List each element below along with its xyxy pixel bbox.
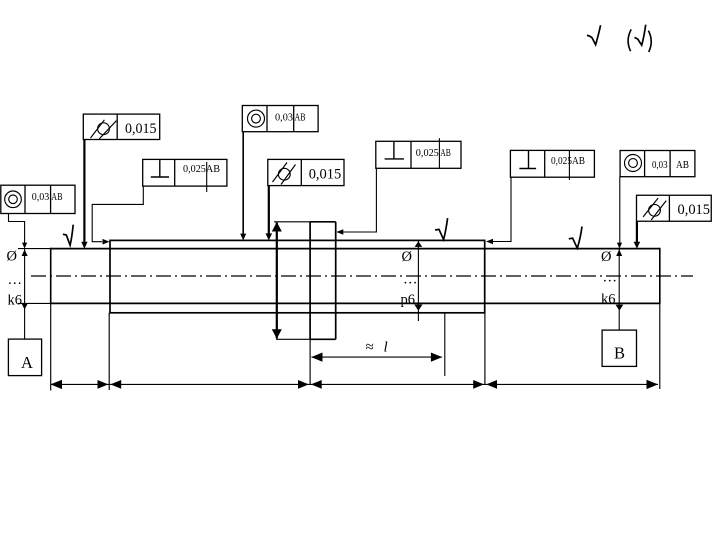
svg-text:p6: p6 bbox=[401, 292, 416, 308]
leader from F3 to middle body bbox=[266, 186, 273, 241]
label Ø ... k6 left bbox=[7, 249, 23, 309]
svg-text:AB: AB bbox=[295, 112, 306, 124]
extension line right end bbox=[659, 304, 661, 389]
frame FD concentricity 0,03 AB right bbox=[620, 151, 695, 177]
shaft left end face bbox=[50, 248, 52, 304]
svg-text:…: … bbox=[8, 272, 23, 288]
collar right edge bbox=[335, 222, 337, 339]
extension line collar left bbox=[309, 339, 311, 384]
frame FA perpendicularity 0,025 AB left bbox=[143, 159, 227, 192]
frame F0 cylindricity 0,015 top-left bbox=[83, 114, 159, 139]
roughness mark on left journal bbox=[63, 225, 73, 246]
extension line right shoulder bbox=[484, 313, 486, 385]
svg-text:Ø: Ø bbox=[402, 249, 412, 265]
label Ø ... k6 right bbox=[601, 249, 617, 308]
frame F3 cylindricity 0,015 middle bbox=[268, 159, 344, 185]
collar diameter dimension double arrow bbox=[272, 222, 282, 339]
frame F1 concentricity 0,03 AB left bbox=[1, 185, 75, 213]
svg-text:A: A bbox=[21, 353, 33, 372]
svg-text:0,03: 0,03 bbox=[275, 112, 293, 124]
label approx l bbox=[366, 340, 388, 356]
leader from F2 to middle body bbox=[240, 132, 246, 241]
svg-text:…: … bbox=[403, 272, 418, 288]
leader from F0 to left journal bbox=[81, 140, 87, 249]
shaft centerline bbox=[31, 275, 693, 277]
svg-text:0,015: 0,015 bbox=[678, 202, 711, 218]
collar left edge bbox=[309, 222, 311, 339]
frame F2 concentricity 0,03 AB middle bbox=[242, 106, 318, 132]
svg-text:0,025: 0,025 bbox=[416, 147, 439, 159]
leader from FE to right journal bbox=[634, 221, 641, 248]
svg-text:0,025AB: 0,025AB bbox=[551, 155, 585, 167]
svg-text:≈: ≈ bbox=[366, 340, 374, 356]
svg-text:AB: AB bbox=[676, 159, 689, 171]
svg-text:AB: AB bbox=[51, 191, 62, 203]
middle body diameter dimension line bbox=[414, 241, 422, 322]
svg-text:0,03: 0,03 bbox=[652, 159, 668, 171]
approx length dimension bbox=[311, 353, 442, 362]
collar bottom edge with extension bbox=[276, 338, 336, 340]
svg-text:0,015: 0,015 bbox=[309, 167, 342, 183]
middle large diameter body bbox=[110, 240, 485, 312]
general roughness mark top right bbox=[587, 25, 651, 52]
approx length extension line bbox=[444, 314, 446, 377]
right journal diameter dimension line with datum B bbox=[616, 249, 624, 331]
frame FC perpendicularity 0,025 AB right bbox=[510, 150, 594, 180]
left journal diameter dimension line with datum A bbox=[22, 249, 28, 340]
frame FE cylindricity 0,015 right bbox=[637, 195, 712, 221]
svg-text:k6: k6 bbox=[601, 292, 616, 308]
datum box B bbox=[602, 330, 636, 366]
label Ø ... p6 middle bbox=[401, 249, 418, 308]
svg-text:AB: AB bbox=[440, 147, 451, 159]
svg-text:Ø: Ø bbox=[7, 249, 17, 265]
svg-text:B: B bbox=[614, 344, 625, 363]
extension line left end bbox=[50, 304, 52, 390]
svg-text:0,025AB: 0,025AB bbox=[183, 163, 220, 175]
roughness mark on middle body bbox=[435, 218, 448, 240]
leader from FA to left shoulder bbox=[92, 186, 143, 244]
leader from FC to right shoulder bbox=[486, 177, 511, 244]
shaft upper generator line bbox=[18, 248, 660, 250]
leader from F4 to collar right face bbox=[336, 168, 376, 235]
svg-text:Ø: Ø bbox=[601, 249, 611, 265]
shaft lower generator line bbox=[18, 302, 660, 304]
collar top edge with extension bbox=[274, 221, 336, 223]
svg-text:…: … bbox=[603, 270, 618, 286]
leader from FD to right journal dimension bbox=[617, 177, 622, 249]
roughness mark on right journal bbox=[569, 227, 582, 249]
bottom chained dimension line bbox=[51, 380, 659, 389]
extension line left shoulder bbox=[108, 313, 110, 390]
svg-text:l: l bbox=[384, 340, 388, 356]
datum box A bbox=[8, 339, 41, 376]
svg-text:0,03: 0,03 bbox=[32, 191, 50, 203]
leader from F1 to left journal dimension bbox=[9, 214, 28, 249]
svg-text:k6: k6 bbox=[8, 293, 23, 309]
frame F4 perpendicularity 0,025 AB middle bbox=[376, 138, 461, 168]
svg-text:0,015: 0,015 bbox=[125, 121, 157, 137]
shaft right end face bbox=[659, 248, 661, 304]
